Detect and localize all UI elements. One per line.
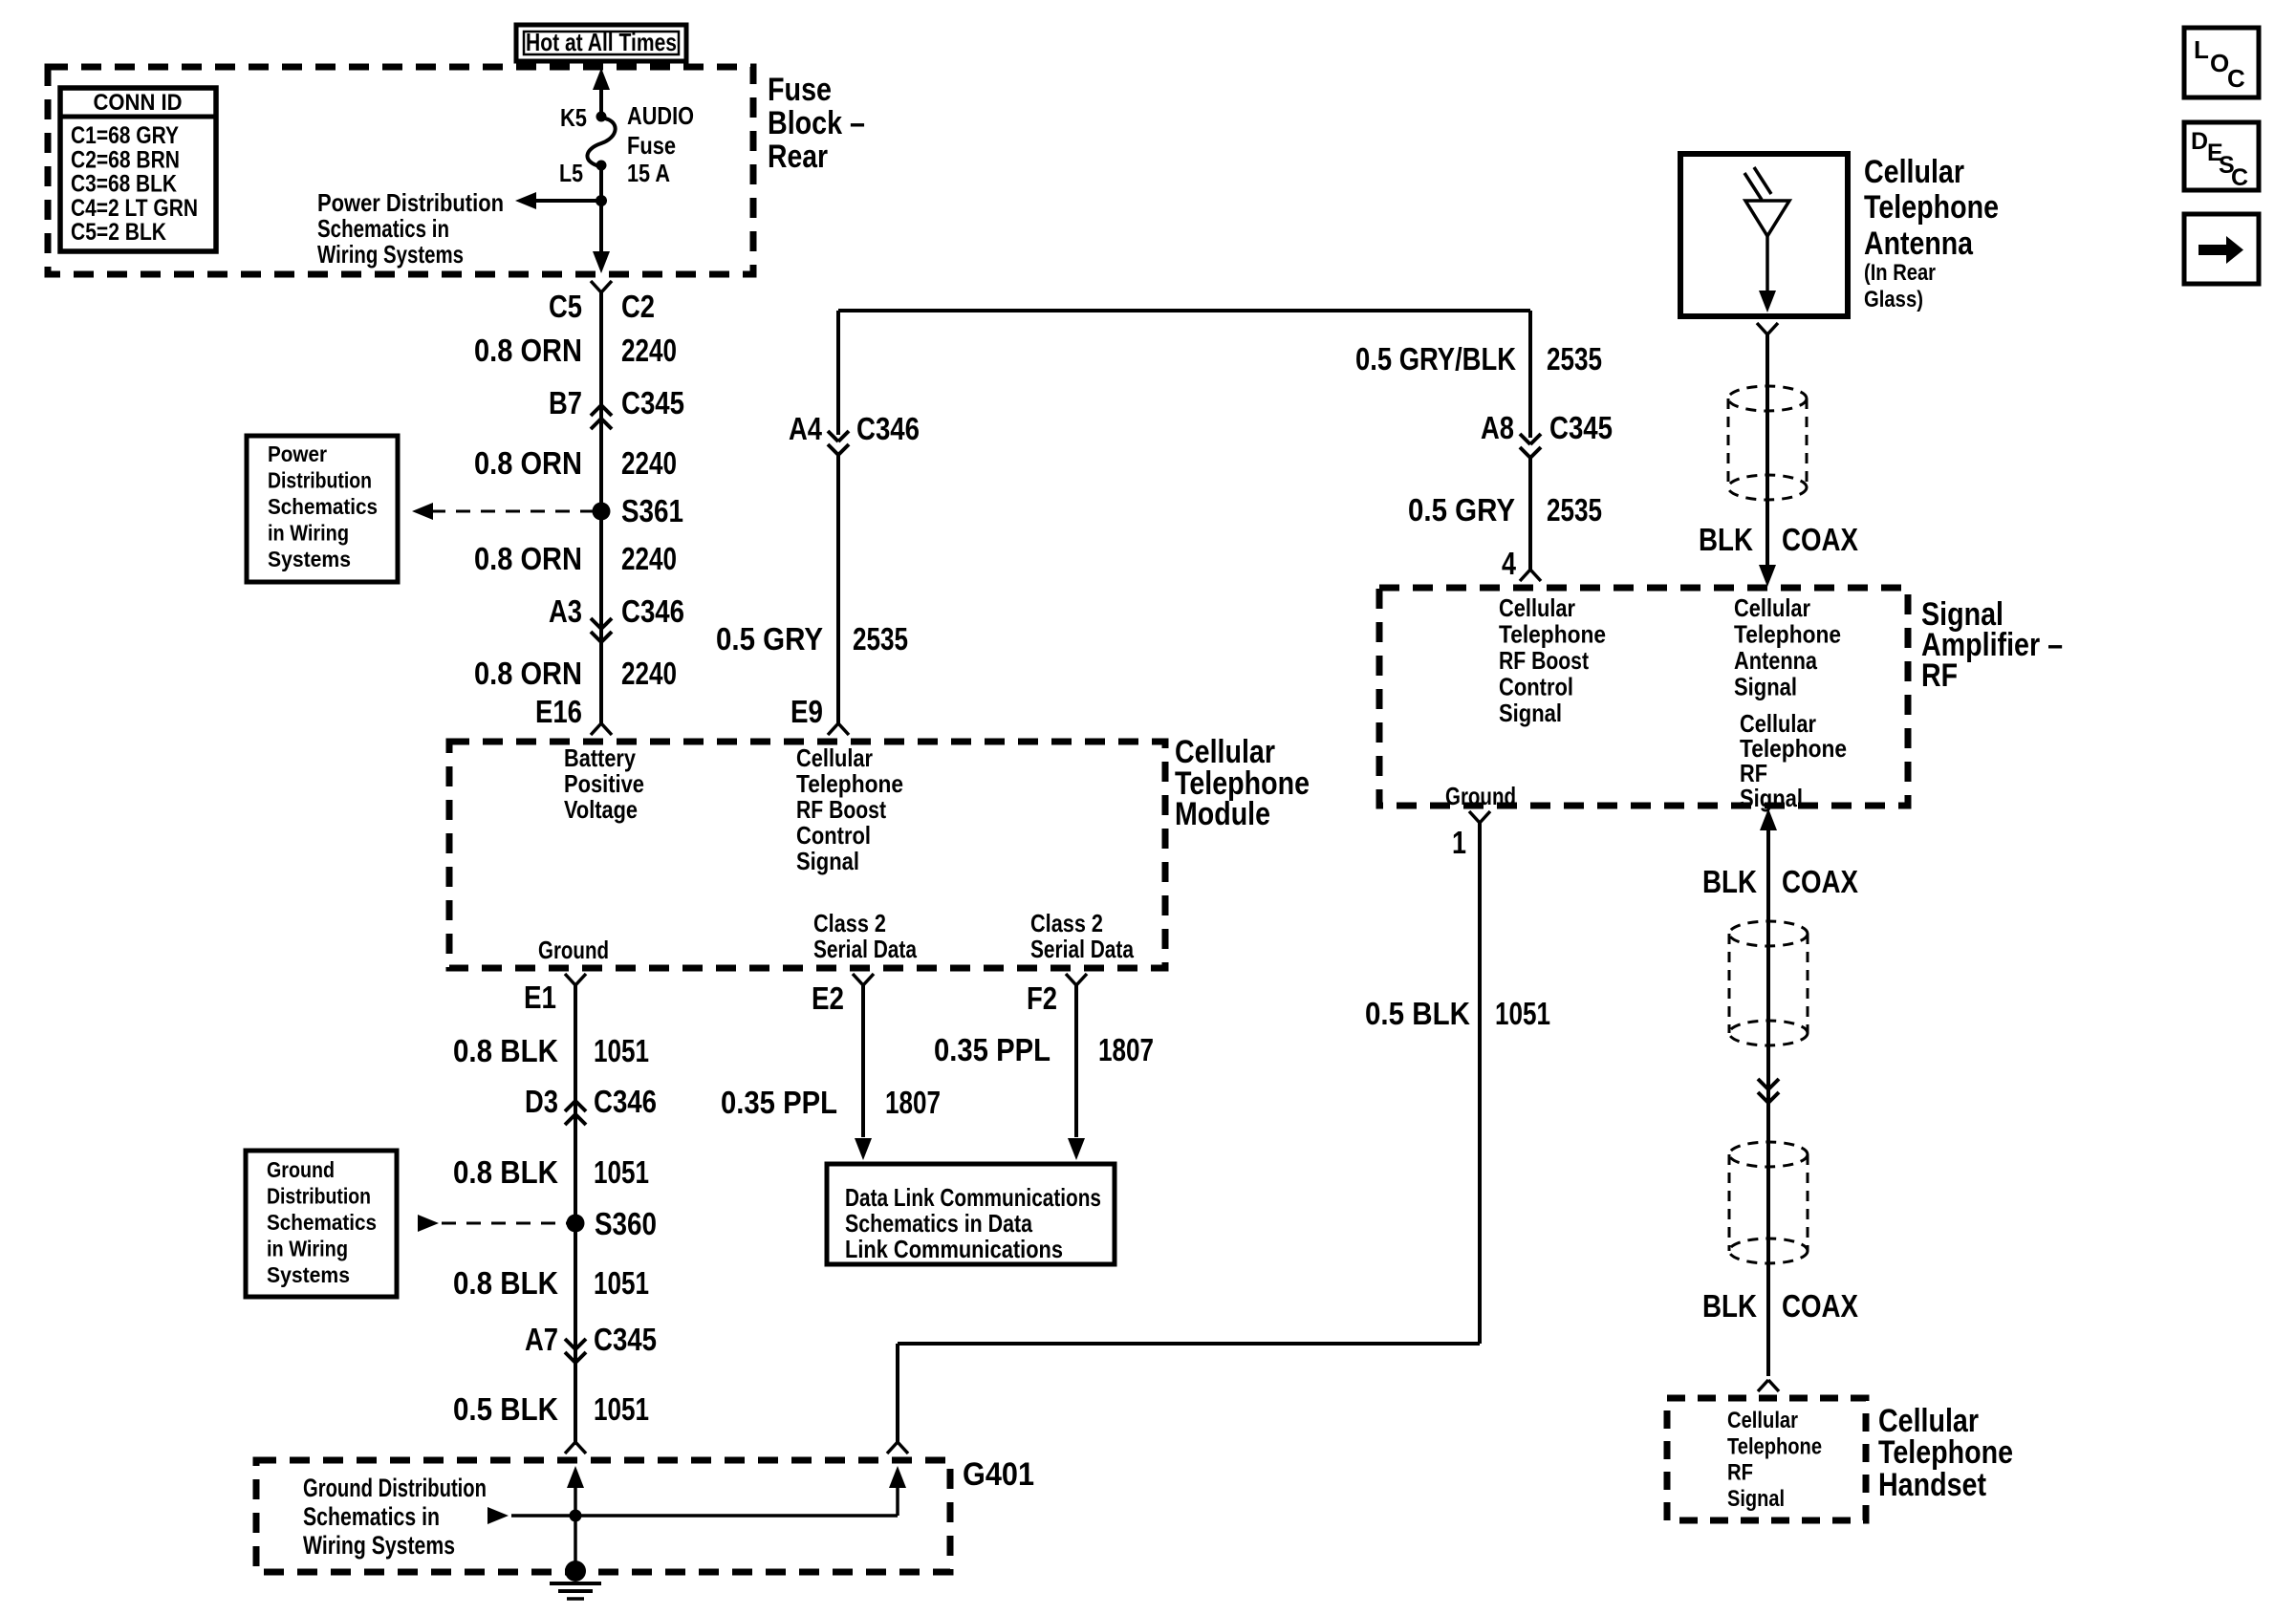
svg-text:D: D (2191, 128, 2208, 155)
svg-text:Signal: Signal (1740, 784, 1803, 812)
svg-text:0.5 GRY/BLK: 0.5 GRY/BLK (1355, 341, 1516, 377)
svg-text:Positive: Positive (564, 769, 644, 798)
svg-text:Ground Distribution: Ground Distribution (303, 1474, 487, 1502)
svg-text:1051: 1051 (594, 1391, 649, 1427)
svg-text:2535: 2535 (1547, 341, 1602, 377)
svg-text:0.5 GRY: 0.5 GRY (716, 621, 823, 657)
svg-text:F2: F2 (1027, 980, 1057, 1016)
svg-text:Control: Control (796, 821, 871, 850)
svg-text:0.8 BLK: 0.8 BLK (453, 1154, 558, 1190)
svg-text:Telephone: Telephone (1727, 1433, 1822, 1459)
svg-text:Signal: Signal (1734, 673, 1797, 701)
svg-text:RF: RF (1921, 657, 1958, 694)
svg-text:CONN ID: CONN ID (94, 90, 183, 116)
svg-text:E16: E16 (535, 694, 582, 729)
svg-text:0.8 ORN: 0.8 ORN (474, 445, 582, 481)
svg-text:A4: A4 (789, 411, 823, 446)
svg-text:C346: C346 (621, 593, 684, 629)
svg-text:Class 2: Class 2 (1030, 909, 1103, 937)
svg-text:Signal: Signal (1727, 1486, 1785, 1512)
svg-text:1051: 1051 (1495, 996, 1550, 1031)
svg-text:Fuse: Fuse (627, 131, 676, 160)
svg-text:Serial Data: Serial Data (1030, 935, 1134, 963)
svg-text:A7: A7 (525, 1322, 558, 1357)
svg-text:2240: 2240 (621, 445, 677, 481)
svg-text:Signal: Signal (796, 847, 859, 875)
svg-text:Wiring Systems: Wiring Systems (317, 240, 464, 269)
svg-text:A3: A3 (549, 593, 582, 629)
svg-text:E9: E9 (791, 694, 823, 729)
svg-text:Distribution: Distribution (268, 468, 372, 493)
svg-text:2240: 2240 (621, 333, 677, 368)
svg-text:BLK: BLK (1699, 522, 1753, 557)
svg-text:1051: 1051 (594, 1033, 649, 1068)
svg-text:Schematics in: Schematics in (303, 1502, 440, 1531)
svg-text:RF Boost: RF Boost (796, 795, 886, 824)
svg-text:Schematics in: Schematics in (317, 214, 449, 243)
svg-text:E2: E2 (812, 980, 844, 1016)
svg-text:Telephone: Telephone (1734, 620, 1841, 649)
svg-text:Antenna: Antenna (1734, 646, 1817, 675)
svg-text:AUDIO: AUDIO (627, 101, 694, 130)
svg-text:COAX: COAX (1782, 864, 1858, 899)
svg-text:C3=68 BLK: C3=68 BLK (71, 171, 177, 198)
svg-text:(In Rear: (In Rear (1864, 260, 1936, 286)
svg-text:in Wiring: in Wiring (268, 521, 349, 546)
svg-text:1: 1 (1452, 825, 1466, 860)
svg-text:Telephone: Telephone (1878, 1434, 2013, 1471)
svg-text:A8: A8 (1481, 410, 1514, 445)
svg-text:1807: 1807 (1098, 1032, 1154, 1067)
svg-text:Hot at All Times: Hot at All Times (526, 28, 677, 56)
svg-text:Ground: Ground (1445, 782, 1516, 810)
svg-text:L5: L5 (559, 159, 583, 187)
svg-text:Schematics: Schematics (267, 1210, 377, 1235)
svg-text:Serial Data: Serial Data (813, 935, 917, 963)
svg-text:0.5 BLK: 0.5 BLK (1365, 996, 1470, 1031)
svg-text:Fuse: Fuse (768, 72, 832, 108)
svg-text:Antenna: Antenna (1864, 226, 1974, 262)
svg-text:1051: 1051 (594, 1154, 649, 1190)
svg-text:B7: B7 (549, 385, 582, 420)
svg-text:C: C (2231, 164, 2248, 191)
svg-text:C4=2 LT GRN: C4=2 LT GRN (71, 195, 198, 222)
svg-text:15 A: 15 A (627, 159, 670, 187)
svg-text:0.35 PPL: 0.35 PPL (934, 1032, 1051, 1067)
svg-text:C345: C345 (621, 385, 684, 420)
svg-text:BLK: BLK (1702, 864, 1757, 899)
svg-text:C346: C346 (594, 1084, 657, 1119)
svg-text:Cellular: Cellular (796, 743, 873, 772)
svg-text:Systems: Systems (267, 1262, 350, 1287)
svg-text:Rear: Rear (768, 139, 828, 175)
svg-text:Distribution: Distribution (267, 1184, 371, 1209)
svg-text:C346: C346 (856, 411, 920, 446)
svg-text:4: 4 (1502, 546, 1517, 581)
svg-text:C5: C5 (549, 289, 582, 324)
svg-text:Class 2: Class 2 (813, 909, 886, 937)
svg-text:C345: C345 (1549, 410, 1613, 445)
svg-text:0.5 BLK: 0.5 BLK (453, 1391, 558, 1427)
svg-text:2240: 2240 (621, 656, 677, 691)
svg-text:Link Communications: Link Communications (845, 1235, 1063, 1263)
svg-text:in Wiring: in Wiring (267, 1237, 348, 1261)
svg-text:L: L (2194, 35, 2209, 64)
svg-text:C2: C2 (621, 289, 655, 324)
svg-text:C1=68 GRY: C1=68 GRY (71, 122, 179, 149)
svg-text:Cellular: Cellular (1499, 593, 1575, 622)
svg-text:Cellular: Cellular (1864, 154, 1964, 190)
svg-text:0.5 GRY: 0.5 GRY (1408, 492, 1515, 528)
svg-text:0.8 ORN: 0.8 ORN (474, 656, 582, 691)
svg-text:K5: K5 (560, 103, 587, 132)
svg-text:Cellular: Cellular (1734, 593, 1810, 622)
svg-text:Ground: Ground (538, 936, 609, 964)
svg-text:Data Link Communications: Data Link Communications (845, 1183, 1101, 1212)
svg-text:C5=2 BLK: C5=2 BLK (71, 219, 166, 246)
svg-text:Control: Control (1499, 673, 1573, 701)
svg-text:COAX: COAX (1782, 1288, 1858, 1324)
svg-text:Telephone: Telephone (1499, 620, 1606, 649)
svg-text:BLK: BLK (1702, 1288, 1757, 1324)
svg-text:Telephone: Telephone (796, 769, 903, 798)
svg-text:RF: RF (1727, 1460, 1753, 1486)
svg-text:S360: S360 (595, 1206, 657, 1241)
svg-text:COAX: COAX (1782, 522, 1858, 557)
svg-text:1807: 1807 (885, 1085, 941, 1120)
svg-text:Power: Power (268, 441, 327, 466)
svg-text:Handset: Handset (1878, 1467, 1986, 1503)
svg-text:Voltage: Voltage (564, 795, 638, 824)
svg-text:C345: C345 (594, 1322, 657, 1357)
svg-text:C2=68 BRN: C2=68 BRN (71, 146, 180, 173)
svg-text:0.8 ORN: 0.8 ORN (474, 541, 582, 576)
svg-text:2535: 2535 (853, 621, 908, 657)
svg-text:0.8 BLK: 0.8 BLK (453, 1265, 558, 1301)
svg-text:Ground: Ground (267, 1157, 335, 1182)
svg-text:2535: 2535 (1547, 492, 1602, 528)
svg-text:0.8 ORN: 0.8 ORN (474, 333, 582, 368)
svg-text:Glass): Glass) (1864, 287, 1923, 312)
svg-text:G401: G401 (963, 1456, 1034, 1493)
svg-text:C: C (2227, 64, 2245, 93)
svg-text:Power Distribution: Power Distribution (317, 188, 504, 217)
svg-text:RF Boost: RF Boost (1499, 646, 1589, 675)
svg-text:Battery: Battery (564, 743, 636, 772)
svg-text:Schematics: Schematics (268, 494, 378, 519)
svg-text:0.35 PPL: 0.35 PPL (721, 1085, 837, 1120)
svg-text:1051: 1051 (594, 1265, 649, 1301)
svg-text:Telephone: Telephone (1864, 189, 1999, 226)
svg-text:Wiring Systems: Wiring Systems (303, 1531, 455, 1560)
svg-text:Signal: Signal (1499, 699, 1562, 727)
svg-text:Schematics in Data: Schematics in Data (845, 1209, 1032, 1238)
svg-text:Block –: Block – (768, 105, 865, 141)
svg-text:Systems: Systems (268, 547, 351, 571)
svg-text:0.8 BLK: 0.8 BLK (453, 1033, 558, 1068)
svg-text:2240: 2240 (621, 541, 677, 576)
svg-text:E1: E1 (524, 980, 556, 1015)
svg-text:Cellular: Cellular (1727, 1408, 1798, 1433)
svg-text:S361: S361 (621, 493, 683, 528)
svg-text:Module: Module (1175, 796, 1270, 832)
svg-text:D3: D3 (525, 1084, 558, 1119)
